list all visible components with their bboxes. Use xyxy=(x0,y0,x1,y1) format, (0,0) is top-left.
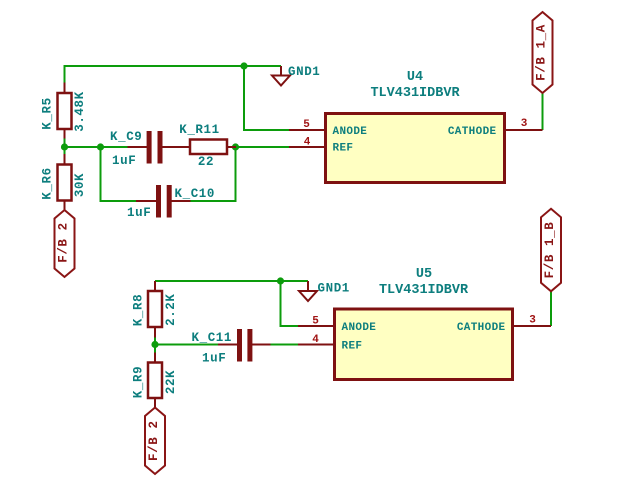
svg-text:GND1: GND1 xyxy=(318,282,350,296)
svg-text:TLV431IDBVR: TLV431IDBVR xyxy=(370,86,460,101)
svg-text:K_C9: K_C9 xyxy=(110,130,142,144)
svg-text:5: 5 xyxy=(312,316,319,328)
svg-text:1uF: 1uF xyxy=(127,206,151,220)
svg-text:2.2K: 2.2K xyxy=(164,293,178,325)
svg-text:3: 3 xyxy=(521,118,528,130)
svg-text:U5: U5 xyxy=(416,267,432,282)
svg-text:K_R11: K_R11 xyxy=(179,123,220,137)
svg-text:CATHODE: CATHODE xyxy=(448,126,497,138)
svg-text:F/B 2: F/B 2 xyxy=(147,420,161,461)
svg-text:REF: REF xyxy=(342,340,363,352)
svg-text:K_C10: K_C10 xyxy=(175,187,216,201)
svg-text:K_R5: K_R5 xyxy=(41,97,55,129)
svg-text:3.48K: 3.48K xyxy=(73,91,87,132)
svg-text:K_R8: K_R8 xyxy=(131,294,145,326)
svg-text:4: 4 xyxy=(312,334,319,346)
svg-text:GND1: GND1 xyxy=(288,65,320,79)
svg-text:U4: U4 xyxy=(407,70,423,85)
svg-text:REF: REF xyxy=(333,143,354,155)
svg-text:4: 4 xyxy=(304,137,311,149)
svg-text:K_R9: K_R9 xyxy=(131,366,145,398)
svg-text:F/B 2: F/B 2 xyxy=(57,222,71,263)
svg-text:K_C11: K_C11 xyxy=(192,331,233,345)
svg-text:1uF: 1uF xyxy=(202,352,226,366)
svg-text:5: 5 xyxy=(303,119,310,131)
svg-text:22: 22 xyxy=(198,155,214,169)
svg-text:F/B 1_B: F/B 1_B xyxy=(543,222,557,279)
svg-text:3: 3 xyxy=(529,315,536,327)
svg-text:30K: 30K xyxy=(73,173,87,197)
svg-text:ANODE: ANODE xyxy=(333,126,368,138)
svg-text:K_R6: K_R6 xyxy=(41,167,55,199)
svg-text:CATHODE: CATHODE xyxy=(457,322,506,334)
svg-text:TLV431IDBVR: TLV431IDBVR xyxy=(379,283,469,298)
svg-text:22K: 22K xyxy=(164,370,178,394)
svg-text:ANODE: ANODE xyxy=(342,322,377,334)
svg-text:1uF: 1uF xyxy=(112,154,136,168)
svg-text:F/B 1_A: F/B 1_A xyxy=(535,24,549,81)
